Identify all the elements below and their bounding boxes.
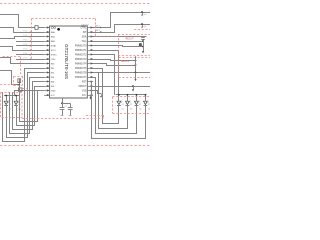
svg-text:P1.6: P1.6	[23, 53, 27, 55]
svg-text:D1: D1	[122, 108, 124, 110]
svg-text:RES IF: RES IF	[126, 37, 135, 40]
svg-text:PWMOUT1: PWMOUT1	[75, 50, 87, 52]
svg-text:C1: C1	[65, 106, 67, 108]
svg-text:GT2170L/T0-16S: GT2170L/T0-16S	[64, 44, 69, 79]
svg-text:PWMOUT3: PWMOUT3	[75, 59, 87, 61]
svg-text:OSC: OSC	[51, 59, 56, 61]
svg-text:D1: D1	[19, 108, 21, 110]
svg-text:PWMOUT6: PWMOUT6	[75, 72, 87, 74]
svg-text:PWMOUT5: PWMOUT5	[75, 68, 87, 70]
svg-text:SYNC: SYNC	[51, 54, 57, 56]
svg-text:P1.3: P1.3	[23, 39, 27, 41]
svg-text:R1: R1	[19, 104, 21, 106]
svg-text:RES IF: RES IF	[122, 60, 131, 63]
svg-text:VSS: VSS	[82, 90, 87, 92]
svg-text:R1: R1	[130, 104, 132, 106]
svg-text:Vcc: Vcc	[143, 14, 146, 16]
svg-text:SCLI: SCLI	[51, 50, 56, 52]
svg-text:D1: D1	[148, 108, 150, 110]
svg-text:PWMOUT2: PWMOUT2	[75, 54, 87, 56]
svg-text:DAC0UT: DAC0UT	[81, 23, 89, 26]
svg-text:P1.7: P1.7	[23, 57, 27, 59]
svg-text:RST: RST	[82, 81, 87, 83]
svg-text:SDA: SDA	[82, 35, 87, 38]
svg-text:R1: R1	[148, 104, 150, 106]
svg-text:P1.1: P1.1	[23, 30, 27, 32]
svg-text:D1: D1	[139, 108, 141, 110]
svg-text:D1: D1	[130, 108, 132, 110]
svg-text:R1: R1	[122, 104, 124, 106]
svg-text:PWMOUT7: PWMOUT7	[75, 77, 87, 79]
svg-text:CTRL: CTRL	[81, 27, 88, 29]
svg-text:N.C.: N.C.	[82, 95, 87, 97]
svg-text:SCL: SCL	[82, 41, 87, 43]
svg-text:GND: GND	[51, 90, 56, 92]
svg-text:N.C.: N.C.	[51, 95, 56, 97]
svg-text:Vcc: Vcc	[143, 26, 146, 28]
svg-text:R1: R1	[9, 104, 11, 106]
svg-text:PWMOUT0: PWMOUT0	[75, 45, 87, 47]
svg-text:P1.4: P1.4	[23, 44, 27, 46]
svg-text:INT: INT	[83, 32, 87, 34]
svg-text:VMOUT: VMOUT	[78, 86, 87, 88]
svg-text:R1: R1	[139, 104, 141, 106]
svg-text:PWMOUT4: PWMOUT4	[75, 63, 87, 65]
svg-text:P1.2: P1.2	[23, 35, 27, 37]
svg-text:D1: D1	[9, 108, 11, 110]
svg-text:SDAI: SDAI	[51, 44, 56, 47]
svg-text:P1.5: P1.5	[23, 48, 27, 50]
